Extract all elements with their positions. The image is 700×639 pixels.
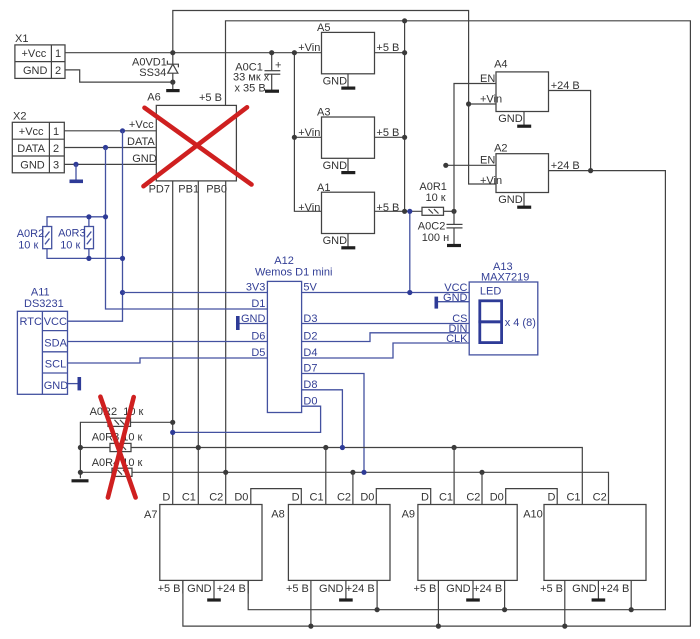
node junction 5V at VCC wire [407,290,412,295]
svg-text:+Vin: +Vin [298,42,320,54]
wire Wemos D4 to A13 CLK [302,343,470,358]
wire A6 PD7 to A7 D [172,181,174,505]
svg-text:C2: C2 [593,491,607,503]
svg-text:EN: EN [480,73,495,85]
RTC module A11 DS3231 [17,286,68,394]
svg-text:D: D [292,491,300,503]
svg-text:GND: GND [23,65,48,77]
node junction pull-up top DATA [103,214,108,219]
svg-text:RTC: RTC [20,316,42,328]
svg-text:+5 В: +5 В [199,92,222,104]
wire +Vcc vertical to A11 VCC [68,131,123,321]
ground A5 GND [323,74,356,88]
ground A2 GND [498,193,531,208]
svg-text:10 к: 10 к [426,192,446,204]
svg-text:+Vcc: +Vcc [19,126,44,138]
svg-text:GND: GND [572,583,597,595]
svg-text:+Vin: +Vin [480,93,502,105]
svg-text:+5 В: +5 В [540,583,563,595]
converter A4 [480,59,580,112]
node junction EN A2 [443,163,448,168]
converter A2 [480,143,580,193]
svg-text:D1: D1 [251,298,265,310]
svg-text:+Vin: +Vin [480,175,502,187]
wire 3V3 to Wemos [123,292,268,294]
svg-text:3: 3 [53,160,59,172]
node junction +24V rail A10 [629,607,634,612]
ground X2 GND [70,164,84,181]
wire 5V feed from +5V rail [409,211,411,292]
node junction ground rail C2 [78,470,83,475]
driver block A7 [144,491,262,595]
wire A6 PB1 to A7 C1 [197,181,199,505]
svg-text:33 мк x: 33 мк x [233,71,270,83]
resistor A0R4 10k (crossed out) [92,457,143,477]
svg-text:SCL: SCL [45,359,66,371]
resistor A0R1 10k [419,181,447,215]
node junction A0C1 top [269,50,274,55]
svg-text:+Vin: +Vin [298,202,320,214]
ground A8 GND [339,598,353,601]
node junction +Vin A3 [292,135,297,140]
svg-text:GND: GND [498,194,523,206]
node junction +Vin rail top [292,50,297,55]
svg-text:C1: C1 [566,491,580,503]
svg-text:A3: A3 [317,107,330,119]
ground A10 GND [592,598,606,601]
svg-text:GND: GND [44,380,68,392]
svg-text:DATA: DATA [17,143,45,155]
svg-text:GND: GND [20,160,45,172]
node junction +5V rail top [402,18,407,23]
wire C1 drop to A9 [453,448,455,505]
node junction pull-up top A0R3 [86,214,91,219]
node junction +24V A4/A2 [588,168,593,173]
wire A4 +24V output [549,91,591,171]
converter A3 [298,107,399,159]
wire top +Vcc rail to A4/A2 +Vin [173,11,496,185]
svg-text:A2: A2 [494,143,507,155]
wire A0R1 right terminal [444,210,455,212]
svg-text:10 к: 10 к [60,239,80,251]
svg-text:D: D [421,491,429,503]
ground A13 GND [436,297,469,309]
resistor A0R2 10k (blue) [17,227,52,252]
svg-text:X2: X2 [13,111,26,123]
node junction diode cathode [170,50,175,55]
svg-text:GND: GND [187,583,212,595]
svg-text:x 35 В: x 35 В [235,83,266,95]
svg-text:A0C2: A0C2 [418,221,446,233]
ground A4 GND [498,112,531,127]
node junction A0R1 right [451,209,456,214]
wire X2 pin2 DATA to A6 [64,147,156,149]
svg-text:+5 В: +5 В [376,202,399,214]
red cross over pulldown resistors [100,397,135,498]
svg-text:A6: A6 [147,92,160,104]
node junction X2 GND [73,162,78,167]
node junction 5V tap [407,209,412,214]
node junction +5V rail A9 [436,624,441,629]
wire A11 SCL to Wemos D5 [68,358,268,363]
wire daisy A8 D0 to A9 D [376,489,430,505]
wire Wemos D8 to C1 net [302,390,343,448]
pin bars A9 bottom [438,580,504,626]
node junction ground rail C1 [78,445,83,450]
connector X1 [15,33,65,78]
svg-text:GND: GND [319,583,344,595]
svg-text:GND: GND [323,235,348,247]
svg-text:A9: A9 [402,509,415,521]
node junction D row at PD7 [170,420,175,425]
driver block A9 [402,491,518,595]
svg-text:SDA: SDA [44,337,67,349]
wire daisy A9 D0 to A10 D [506,489,558,505]
node junction A3 output on rail [402,135,407,140]
wire X2 pin1 +Vcc to A6 [64,130,156,132]
node junction C1 at A8 [323,445,328,450]
svg-text:C2: C2 [466,491,480,503]
svg-text:A0R2 10 к: A0R2 10 к [90,406,144,418]
ground Wemos GND [238,316,268,330]
svg-text:x 4 (8): x 4 (8) [505,317,536,329]
wire A3 +Vin branch [294,136,321,138]
wire A2 +24V output to bottom rail [248,171,665,610]
driver block A8 [271,491,390,595]
svg-text:C2: C2 [209,491,223,503]
svg-text:D0: D0 [234,491,248,503]
svg-text:LED: LED [480,285,501,297]
ground A11 GND [68,377,80,390]
svg-text:C1: C1 [439,491,453,503]
wire +Vin left rail to A3 and A1 [294,53,321,212]
display A13 MAX7219 [443,261,538,355]
node junction +24V rail A9 [502,607,507,612]
svg-text:2: 2 [55,65,61,77]
node junction pull-up bottom A0R3 [86,256,91,261]
svg-text:DATA: DATA [127,136,155,148]
node junction X2 DATA [103,145,108,150]
ground A7 GND [207,598,221,601]
svg-text:MAX7219: MAX7219 [481,271,529,283]
pin bars A10 bottom [565,580,631,626]
wire Wemos D2 to A13 DIN [302,333,470,342]
svg-text:A10: A10 [523,509,543,521]
wire +5V vertical rail [404,21,406,212]
svg-text:PB0: PB0 [206,184,227,196]
svg-text:+5 В: +5 В [413,583,436,595]
capacitor A0C1 33uF [233,53,281,95]
diode A0VD1 SS34 [132,53,178,82]
wire daisy A7 D0 to A8 D [251,489,301,505]
pin bars A7 bottom [183,580,248,598]
svg-text:+: + [275,60,281,72]
node junction X2 +Vcc [120,128,125,133]
wire A5 +5V output [375,52,405,54]
svg-text:+24 В: +24 В [346,583,375,595]
wire C2 drop to A8 [352,472,354,504]
svg-text:GND: GND [323,75,348,87]
wire A3 +5V output [375,136,405,138]
svg-text:+24 В: +24 В [600,583,629,595]
svg-text:D0: D0 [360,491,374,503]
svg-text:C1: C1 [182,491,196,503]
node junction A5 output on rail [402,50,407,55]
pin bars A8 bottom [311,580,377,626]
ground below A0C2 [447,244,461,247]
svg-text:DS3231: DS3231 [24,298,64,310]
svg-text:A12: A12 [274,255,294,267]
node junction C1 at D8 [340,445,345,450]
svg-text:+5 В: +5 В [286,583,309,595]
svg-text:D6: D6 [251,331,265,343]
node junction C1 at A9 [452,445,457,450]
converter A1 [298,182,399,234]
svg-text:C1: C1 [310,491,324,503]
svg-text:+Vcc: +Vcc [129,119,154,131]
wire D net row (PD7 to A0R2) [131,421,173,423]
svg-text:+24 В: +24 В [473,583,502,595]
ground A9 GND [466,598,480,601]
wire A1 +5V output to A0R1 [375,210,423,212]
svg-text:GND: GND [498,113,523,125]
node junction 3V3 [120,290,125,295]
node junction C1 at PB1 [196,445,201,450]
ground A3 GND [323,158,356,172]
driver block A10 [523,491,646,595]
wire EN A2 stub [446,164,496,166]
node junction C2 at A9 [479,470,484,475]
ground below diode [166,82,179,91]
svg-text:A0R3: A0R3 [58,228,86,240]
wire Wemos D0 to D net [173,406,321,432]
wire C2 drop to A9 [481,472,483,504]
svg-text:PB1: PB1 [178,184,199,196]
node junction C2 at PB0 [223,470,228,475]
node junction C2 at D7 [361,470,366,475]
svg-text:A4: A4 [494,59,507,71]
node junction C2 at A8 [350,470,355,475]
wire C1 drop to A8 [325,448,327,505]
node junction A1 output on rail [402,209,407,214]
connector X2 [12,111,64,173]
wire Wemos D3 to A13 CS [302,323,470,325]
node junction diode anode [170,80,175,85]
converter A5 [298,22,399,74]
wire X1 pin1 +Vcc to A5 +Vin [65,52,322,54]
ground A1 GND [323,234,356,248]
resistor A0R3 10k (blue) [58,227,93,252]
resistor A0R2 10k (crossed out) [90,406,144,427]
node junction +24V rail A8 [375,607,380,612]
svg-text:Wemos D1 mini: Wemos D1 mini [255,267,332,279]
svg-text:D0: D0 [490,491,504,503]
svg-text:C2: C2 [337,491,351,503]
svg-text:EN: EN [480,155,495,167]
svg-text:PD7: PD7 [149,184,170,196]
svg-text:+Vin: +Vin [298,127,320,139]
node junction +5V rail A8 [308,624,313,629]
svg-text:D: D [547,491,555,503]
ground below pulldown rail [72,479,89,482]
svg-text:D: D [162,491,170,503]
capacitor A0C2 100n [418,211,463,244]
wire Wemos D7 to C2 net [302,374,364,473]
svg-text:A11: A11 [31,286,50,298]
svg-text:100 н: 100 н [422,232,449,244]
svg-text:1: 1 [53,126,59,138]
wire C2 net row [80,471,112,473]
svg-text:A5: A5 [317,22,330,34]
svg-text:A8: A8 [271,509,284,521]
seven-segment digit in A13 [480,301,502,343]
wire +5V top distribution rail [183,21,691,626]
wire pull-up top rail [47,217,106,227]
svg-text:A0R2: A0R2 [17,228,45,240]
node junction +5V rail A10 [562,624,567,629]
wire A0R3 stems [88,217,90,259]
wire DATA vertical to Wemos D1 [106,148,268,310]
resistor A0R3 10k (crossed out) [92,432,143,452]
svg-text:GND: GND [323,160,348,172]
module A12 Wemos D1 mini [241,255,332,413]
svg-text:VCC: VCC [44,316,67,328]
svg-text:CLK: CLK [446,333,468,345]
node junction +Vin A4 [466,101,471,106]
wire Wemos 5V to A13 VCC [302,292,470,294]
svg-text:2: 2 [53,143,59,155]
wire pull-up bottom rail [47,249,123,259]
wire A6 PB0 to A7 C2 [225,181,227,505]
wire X2 pin3 GND to A6 [64,163,156,165]
wire A0R2 left to ground rail [80,422,108,478]
wire C2 net to A10 [132,472,609,504]
svg-text:10 к: 10 к [18,239,38,251]
svg-text:GND: GND [446,583,471,595]
microcontroller A6 (crossed out) [127,92,236,196]
node junction D0 on PD7 line [170,430,175,435]
wire C1 net to A10 [131,448,582,505]
svg-text:+Vcc: +Vcc [22,48,47,60]
svg-text:X1: X1 [15,33,28,45]
wire C1 net row [80,447,110,449]
ground below A0C1 [265,90,279,93]
node junction pull-up bottom +Vcc [120,256,125,261]
wire A11 SDA to Wemos D6 [68,341,268,343]
svg-text:A7: A7 [144,509,157,521]
svg-text:3V3: 3V3 [246,282,266,294]
svg-text:+24 В: +24 В [217,583,246,595]
red cross over A6 [144,107,252,186]
svg-text:GND: GND [132,153,157,165]
svg-text:1: 1 [55,48,61,60]
svg-text:+5 В: +5 В [158,583,181,595]
svg-text:SS34: SS34 [139,67,166,79]
wire EN A4 pull-up [454,84,496,212]
wire X1 pin2 GND to diode anode [65,70,173,82]
svg-text:D5: D5 [251,347,265,359]
wire +Vin A4 branch [469,103,496,105]
svg-text:A1: A1 [317,182,330,194]
